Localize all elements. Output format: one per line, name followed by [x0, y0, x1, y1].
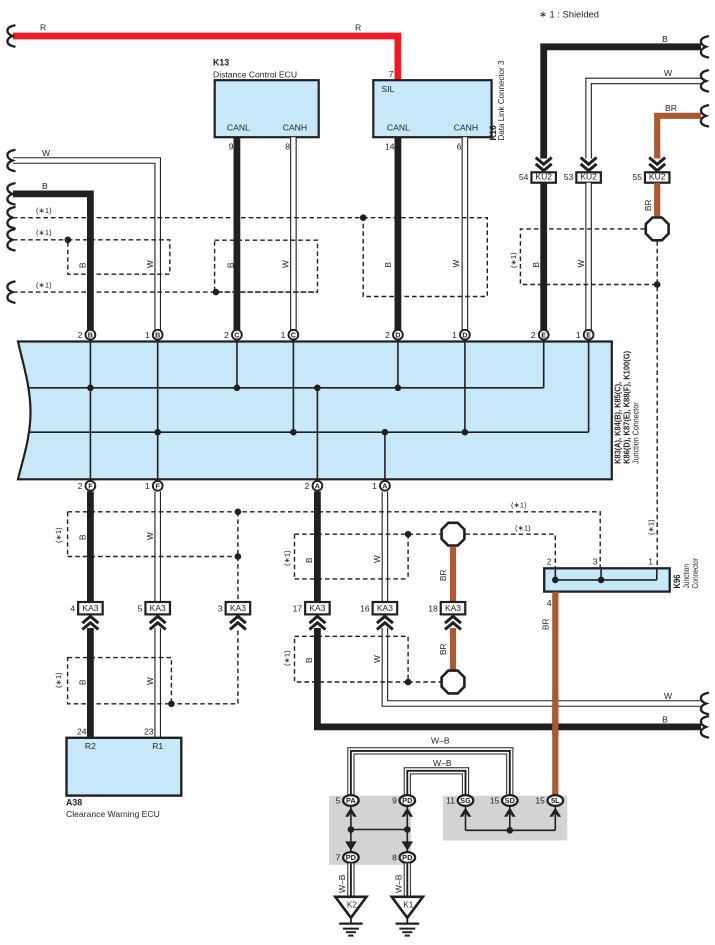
- svg-text:KA3: KA3: [445, 603, 461, 613]
- svg-text:W–B: W–B: [433, 758, 452, 768]
- svg-text:3: 3: [593, 557, 598, 567]
- K96 junction connector box: [544, 568, 670, 591]
- svg-text:1: 1: [576, 330, 581, 340]
- svg-text:55: 55: [632, 172, 642, 182]
- connector KA3 pin 4: [78, 602, 103, 614]
- wire B from A2 to KA3 pin 17: [314, 492, 321, 603]
- connector KA3 pin 18: [441, 602, 466, 614]
- left block vertical PD: [406, 806, 408, 851]
- junction vertical C2: [236, 342, 238, 388]
- svg-text:2: 2: [531, 330, 536, 340]
- wire B KA3-17 to right break: [317, 628, 701, 727]
- svg-text:R1: R1: [152, 741, 163, 751]
- right block crossbar: [466, 829, 556, 831]
- svg-text:KA3: KA3: [150, 603, 166, 613]
- connector circle F pin2: [86, 481, 96, 491]
- dot D1 on CANH bus: [462, 429, 469, 436]
- A38 Clearance Warning ECU box: [67, 738, 182, 796]
- svg-text:(∗1): (∗1): [511, 501, 527, 510]
- junction vertical C1: [292, 342, 294, 433]
- svg-text:Clearance Warning ECU: Clearance Warning ECU: [66, 809, 160, 819]
- connector circle C pin1: [289, 330, 299, 340]
- dot D2 on CANL bus: [395, 385, 402, 392]
- wire R (Red) from left break to K16 SIL pin 7: [13, 36, 398, 81]
- svg-text:2: 2: [78, 481, 83, 491]
- svg-text:SD: SD: [505, 796, 516, 805]
- connector KA3 pin 16: [373, 602, 398, 614]
- svg-text:SIL: SIL: [382, 84, 395, 94]
- junction dot dashed2/B-box: [65, 237, 72, 244]
- svg-text:CANL: CANL: [387, 123, 410, 133]
- svg-text:W: W: [146, 677, 155, 685]
- svg-text:B: B: [532, 262, 541, 268]
- svg-text:W: W: [452, 260, 461, 268]
- shield box A pair lower: [295, 636, 441, 682]
- shield dashed from F box to KA3 pin 3: [237, 557, 239, 603]
- svg-text:C: C: [291, 330, 296, 339]
- break symbol dashed 2: [7, 229, 14, 250]
- left block dot PD: [404, 826, 411, 833]
- svg-text:2: 2: [224, 330, 229, 340]
- wire W from K16 CANH pin 6 to junction D1: [462, 137, 469, 331]
- K96 dot pin2: [552, 577, 559, 584]
- shield box A pair upper: [295, 534, 441, 579]
- wire B KA3-4 to A38 pin 24: [87, 628, 94, 738]
- arrow up into PA: [345, 808, 357, 817]
- svg-text:24: 24: [77, 727, 87, 737]
- shield ring octagon bottom: [442, 671, 465, 694]
- junction dot drain/E-box: [654, 281, 661, 288]
- junction dot dashed3/C-box: [213, 289, 220, 296]
- svg-text:W: W: [577, 260, 586, 268]
- right block vertical SG: [465, 806, 467, 830]
- wire W-B PD8 to ground K1: [404, 863, 411, 896]
- wire W KA3-5 to A38 pin 23: [154, 628, 161, 738]
- break symbol B bottom right: [701, 716, 708, 737]
- svg-text:B: B: [305, 557, 314, 563]
- svg-text:E: E: [586, 330, 591, 339]
- svg-text:1: 1: [452, 330, 457, 340]
- svg-text:BR: BR: [439, 644, 448, 655]
- arrow up into SD: [504, 808, 516, 817]
- svg-text:Distance Control ECU: Distance Control ECU: [213, 69, 297, 79]
- svg-text:K83(A), K84(B), K85(C),: K83(A), K84(B), K85(C),: [613, 382, 622, 464]
- svg-text:B: B: [79, 262, 88, 268]
- svg-text:KU2: KU2: [535, 172, 552, 182]
- svg-text:9: 9: [392, 796, 397, 806]
- arrow up into 5L: [550, 808, 562, 817]
- connector oval PD pin 8: [400, 852, 416, 863]
- wire B from K16 CANL pin 14 to junction D2: [394, 137, 401, 331]
- right block vertical SD: [509, 806, 511, 830]
- arrow up into PD9: [402, 808, 414, 817]
- svg-text:Connector: Connector: [691, 558, 700, 589]
- svg-text:B: B: [662, 34, 668, 44]
- connector circle A pin2: [313, 481, 323, 491]
- connector KU2 pin 55 arrows: [649, 158, 665, 165]
- svg-text:PD: PD: [346, 853, 357, 862]
- svg-text:W: W: [664, 68, 673, 78]
- junction vertical E1: [588, 342, 590, 433]
- svg-text:BR: BR: [665, 103, 677, 113]
- arrow down into PD7: [345, 841, 357, 850]
- shield box around E pair: [520, 229, 657, 285]
- svg-text:∗ 1 : Shielded: ∗ 1 : Shielded: [539, 9, 599, 20]
- ground K2: [335, 897, 366, 918]
- arrow up into SG: [460, 808, 472, 817]
- connector KA3 pin 17: [305, 602, 330, 614]
- svg-text:K13: K13: [213, 58, 229, 68]
- K96 dot pin3: [598, 577, 605, 584]
- junction vertical D1: [464, 342, 466, 433]
- connector KA3 pin 17 arrows: [309, 623, 325, 630]
- break symbol wire B left: [7, 183, 14, 204]
- svg-text:2: 2: [78, 330, 83, 340]
- svg-text:W: W: [146, 532, 155, 540]
- svg-text:(∗1): (∗1): [509, 252, 518, 268]
- wire BR K96 pin 4 overlay at crossings: [552, 695, 558, 735]
- svg-text:54: 54: [519, 172, 529, 182]
- svg-text:W–B: W–B: [431, 736, 450, 746]
- wire W from A1 to KA3 pin 16: [382, 492, 389, 603]
- svg-text:15: 15: [490, 796, 500, 806]
- svg-text:K86(D), K87(E), K88(F), K100(G: K86(D), K87(E), K88(F), K100(G): [623, 351, 632, 464]
- left block vertical PA: [350, 806, 352, 851]
- svg-text:B: B: [79, 534, 88, 540]
- connector KU2 pin 53 arrows: [581, 158, 597, 165]
- svg-text:CANH: CANH: [283, 123, 307, 133]
- connector circle E pin2: [539, 330, 549, 340]
- dot B1 on CANH bus: [154, 429, 161, 436]
- connector circle B pin1: [153, 330, 163, 340]
- shield dashed line 2 (*1) to B-pair box: [13, 239, 68, 241]
- svg-text:1: 1: [145, 481, 150, 491]
- wire B from right break to KU2 pin 54: [544, 47, 701, 159]
- svg-text:(∗1): (∗1): [36, 206, 52, 215]
- break symbol right end wire W: [701, 70, 708, 91]
- svg-text:W: W: [664, 691, 673, 701]
- svg-text:CANL: CANL: [227, 123, 250, 133]
- svg-text:A: A: [382, 482, 387, 491]
- shield dashed drain from octagon to K96 pin 1: [656, 241, 658, 568]
- shield dashed line 3 (*1) to C-pair box: [13, 291, 318, 293]
- svg-text:(∗1): (∗1): [515, 524, 531, 533]
- connector circle B pin2: [86, 330, 96, 340]
- svg-text:B: B: [155, 330, 160, 339]
- junction vertical E2: [543, 342, 545, 388]
- wire W from KU2 53 to junction E1: [585, 183, 592, 331]
- svg-text:2: 2: [547, 557, 552, 567]
- connector oval PD pin 9: [400, 795, 416, 806]
- svg-text:2: 2: [305, 481, 310, 491]
- connector KU2 pin 54 arrows: [536, 158, 552, 165]
- svg-text:W: W: [146, 260, 155, 268]
- wire BR K96 pin 4 to 5L: [552, 592, 558, 795]
- svg-text:53: 53: [564, 172, 574, 182]
- svg-text:4: 4: [70, 604, 75, 614]
- svg-text:D: D: [395, 330, 400, 339]
- svg-text:D: D: [462, 330, 467, 339]
- shield dashed from octagon mid to K96 pin 2: [465, 534, 555, 568]
- connector KU2 pin 53: [576, 172, 601, 182]
- junction vertical A2: [316, 388, 318, 480]
- svg-text:PD: PD: [402, 796, 413, 805]
- svg-text:KU2: KU2: [649, 172, 666, 182]
- svg-text:KA3: KA3: [230, 603, 246, 613]
- svg-text:B: B: [88, 330, 93, 339]
- svg-text:5L: 5L: [551, 796, 560, 805]
- svg-text:W: W: [373, 555, 382, 563]
- break symbol left end of wire R: [7, 25, 14, 46]
- svg-text:(∗1): (∗1): [283, 650, 292, 666]
- connector circle E pin1: [584, 330, 594, 340]
- svg-text:1: 1: [648, 557, 653, 567]
- svg-text:K96: K96: [672, 574, 682, 588]
- svg-text:1: 1: [281, 330, 286, 340]
- wire W from F1 to KA3 pin 5: [154, 492, 161, 603]
- wire BR octagon mid to KA3 pin 18: [450, 546, 456, 602]
- gray junction block right: [443, 796, 567, 841]
- connector KA3 pin 3 arrows: [230, 623, 246, 630]
- junction vertical A1: [384, 432, 386, 479]
- dot A2 on CANL bus: [314, 385, 321, 392]
- shield ring octagon mid: [442, 523, 465, 546]
- right block dot SD: [507, 827, 514, 834]
- svg-text:CANH: CANH: [454, 123, 478, 133]
- svg-text:W: W: [373, 655, 382, 663]
- wire W from left break to junction B1: [13, 161, 158, 332]
- svg-text:1: 1: [145, 330, 150, 340]
- wire BR from KU2 55 to shield ring: [654, 183, 660, 217]
- svg-text:(∗1): (∗1): [54, 527, 63, 543]
- gray junction block left: [329, 796, 411, 865]
- wire B from K13 CANL pin 9 to junction C2: [233, 137, 240, 331]
- left block crossbar: [351, 829, 407, 831]
- junction dot F box bottom right: [235, 553, 242, 560]
- svg-text:2: 2: [385, 330, 390, 340]
- arrow down into PD8: [402, 841, 414, 850]
- break symbol dashed 1: [7, 207, 14, 228]
- svg-text:5: 5: [138, 604, 143, 614]
- svg-text:B: B: [79, 679, 88, 685]
- junction vertical B2-F2: [89, 342, 91, 480]
- shield dashed KA3-3 down: [171, 631, 238, 704]
- connector oval SG pin 11: [458, 795, 474, 806]
- break symbol wire W left: [7, 150, 14, 171]
- bus line CANH inside junction box: [30, 431, 589, 433]
- svg-text:Junction Connector: Junction Connector: [631, 402, 640, 464]
- connector KU2 pin 54: [531, 172, 556, 182]
- wire BR KA3-18 to octagon bottom: [450, 628, 456, 671]
- connector circle A pin1: [380, 481, 390, 491]
- svg-text:(∗1): (∗1): [54, 672, 63, 688]
- connector circle D pin1: [460, 330, 470, 340]
- break symbol dashed 3: [7, 282, 14, 303]
- dot A1 on CANH bus: [382, 429, 389, 436]
- shield dashed top row to K96 pin 3: [68, 512, 601, 569]
- svg-text:KA3: KA3: [309, 603, 325, 613]
- wire W-B outer loop PA to SD: [351, 751, 510, 795]
- svg-text:Junction: Junction: [682, 564, 691, 589]
- svg-text:R: R: [40, 23, 46, 33]
- svg-text:K2: K2: [347, 900, 357, 909]
- svg-text:23: 23: [144, 727, 154, 737]
- shield box F pair lower: [68, 658, 172, 704]
- svg-text:F: F: [156, 482, 161, 491]
- svg-text:(∗1): (∗1): [283, 550, 292, 566]
- shield box around C pair: [215, 240, 318, 292]
- junction dot A box top right: [405, 531, 412, 538]
- svg-text:18: 18: [428, 604, 438, 614]
- svg-text:Data Link Connector 3: Data Link Connector 3: [496, 60, 506, 140]
- svg-text:R: R: [355, 23, 361, 33]
- svg-text:7: 7: [336, 853, 341, 863]
- junction dot F lower box: [168, 701, 175, 708]
- K16 Data Link Connector 3 box: [373, 80, 491, 137]
- junction vertical B1-F1: [157, 342, 159, 480]
- ground K1: [392, 897, 423, 918]
- svg-text:W–B: W–B: [394, 874, 404, 893]
- svg-text:F: F: [88, 482, 93, 491]
- wire W KA3-16 to right break: [385, 628, 701, 704]
- bus line CANL inside junction box: [28, 387, 544, 389]
- connector oval SD pin 15: [502, 795, 518, 806]
- right block vertical 5L: [554, 806, 556, 830]
- svg-text:BR: BR: [439, 570, 448, 581]
- svg-text:16: 16: [360, 604, 370, 614]
- svg-text:B: B: [662, 714, 668, 724]
- wire W-B inner loop PD to SG: [407, 771, 465, 795]
- svg-text:(∗1): (∗1): [647, 519, 656, 535]
- wire B from left break to junction B2: [13, 194, 90, 331]
- junction dot dashed1/D-box: [360, 214, 367, 221]
- svg-text:11: 11: [446, 796, 455, 806]
- shield ring octagon top right: [646, 218, 669, 241]
- svg-text:W–B: W–B: [337, 874, 347, 893]
- svg-text:1: 1: [372, 481, 377, 491]
- connector KA3 pin 18 arrows: [445, 623, 461, 630]
- svg-text:(∗1): (∗1): [36, 228, 52, 237]
- svg-text:(∗1): (∗1): [36, 281, 52, 290]
- break symbol right end wire BR: [701, 105, 708, 126]
- connector KA3 pin 5: [145, 602, 170, 614]
- dot C2 on CANL bus: [234, 385, 241, 392]
- svg-text:BR: BR: [644, 200, 653, 211]
- connector circle F pin1: [153, 481, 163, 491]
- svg-text:B: B: [42, 181, 48, 191]
- wire BR from right break to KU2 pin 55: [657, 116, 701, 159]
- connector oval PA pin 5: [343, 795, 359, 806]
- K13 Distance Control ECU box: [215, 80, 319, 137]
- left block dot PA: [348, 826, 355, 833]
- connector KA3 pin 16 arrows: [377, 623, 393, 630]
- svg-text:A38: A38: [66, 798, 82, 808]
- shield dashed line 1 (*1) to D-pair box: [13, 217, 363, 219]
- connector KA3 pin 4 arrows: [82, 623, 98, 630]
- svg-text:B: B: [226, 262, 235, 268]
- connector circle C pin2: [232, 330, 242, 340]
- svg-text:PD: PD: [402, 853, 413, 862]
- svg-text:BR: BR: [542, 619, 551, 630]
- wire W from K13 CANH pin 8 to junction C1: [290, 137, 297, 331]
- svg-text:KU2: KU2: [580, 172, 597, 182]
- junction vertical D2: [397, 342, 399, 388]
- svg-text:7: 7: [389, 69, 394, 79]
- svg-text:4: 4: [547, 598, 552, 608]
- svg-text:KA3: KA3: [377, 603, 393, 613]
- K96 internal bus: [555, 568, 657, 580]
- svg-text:17: 17: [293, 604, 303, 614]
- wire B from F2 to KA3 pin 4: [87, 492, 94, 603]
- wire W-B PD7 to ground K2: [347, 863, 354, 896]
- dot B2 on CANL bus: [87, 385, 94, 392]
- connector oval 5L pin 15: [548, 795, 564, 806]
- wire B from KU2 54 to junction E2: [540, 183, 547, 331]
- connector circle D pin2: [393, 330, 403, 340]
- shield box F pair upper left/bottom edges: [68, 512, 238, 557]
- svg-text:K1: K1: [403, 900, 413, 909]
- svg-text:A: A: [315, 482, 320, 491]
- svg-text:5: 5: [336, 796, 341, 806]
- svg-text:PA: PA: [346, 796, 356, 805]
- shield box around B pair: [68, 240, 170, 274]
- junction connector K83-K100 box: [18, 342, 612, 480]
- svg-text:W: W: [42, 148, 51, 158]
- svg-text:C: C: [234, 330, 239, 339]
- break symbol right end wire B: [701, 36, 708, 57]
- svg-text:8: 8: [285, 142, 290, 152]
- svg-text:E: E: [541, 330, 546, 339]
- junction dot top row / KA3-3 branch: [235, 509, 242, 516]
- connector KA3 pin 3: [226, 602, 251, 614]
- svg-text:SG: SG: [460, 796, 471, 805]
- svg-text:8: 8: [392, 853, 397, 863]
- connector KA3 pin 5 arrows: [150, 623, 166, 630]
- svg-text:3: 3: [218, 604, 223, 614]
- svg-text:B: B: [384, 262, 393, 268]
- connector KU2 pin 55: [645, 172, 670, 182]
- svg-text:W: W: [282, 260, 291, 268]
- svg-text:B: B: [305, 657, 314, 663]
- svg-text:14: 14: [385, 142, 395, 152]
- dot C1 on CANH bus: [290, 429, 297, 436]
- junction dot A lower box: [405, 679, 412, 686]
- svg-text:R2: R2: [85, 741, 96, 751]
- break symbol W bottom right: [701, 693, 708, 714]
- svg-text:6: 6: [457, 142, 462, 152]
- svg-text:15: 15: [535, 796, 545, 806]
- shield box around D pair: [363, 218, 487, 297]
- svg-text:KA3: KA3: [82, 603, 98, 613]
- wire W from right break to KU2 pin 53: [589, 81, 701, 159]
- svg-text:9: 9: [229, 142, 234, 152]
- connector oval PD pin 7: [343, 852, 359, 863]
- shield box F pair right edge: [237, 512, 239, 557]
